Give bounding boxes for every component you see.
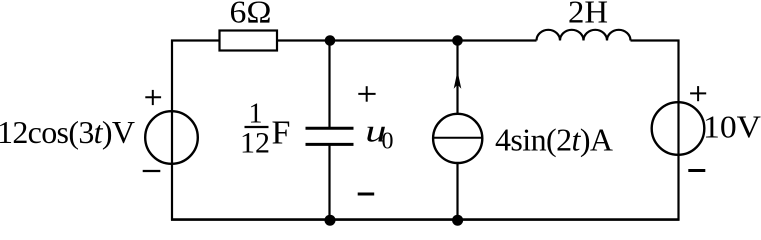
capacitor C1 bottom plate: [306, 143, 354, 146]
capacitor C1 top plate: [306, 127, 354, 130]
wire bottom horizontal: [171, 218, 680, 221]
wire node A to node B: [330, 39, 458, 41]
wire node B to inductor: [458, 39, 537, 41]
voltage source V1 circle (12cos(3t)V): [145, 111, 198, 164]
wire current source branch upper: [456, 41, 458, 115]
node u0 plus sign (capacitor voltage polarity): [358, 93, 375, 95]
voltage source V2 minus sign: [688, 169, 705, 172]
svg-text:12cos(3t)V: 12cos(3t)V: [0, 114, 135, 150]
wire right vertical (through 10V source): [677, 40, 679, 221]
node C junction dot (bottom of capacitor branch): [325, 215, 336, 226]
voltage source V1 minus sign: [143, 170, 161, 172]
svg-text:0: 0: [382, 128, 394, 154]
svg-text:1: 1: [249, 99, 263, 130]
current source I1 horizontal bar: [433, 137, 482, 139]
svg-text:F: F: [272, 115, 291, 152]
node D junction dot (bottom of current source branch): [452, 215, 463, 226]
resistor R1 6 ohm body: [220, 31, 278, 51]
svg-text:12: 12: [240, 126, 270, 159]
node B junction dot (top of current source branch): [452, 35, 463, 46]
wire top-left horizontal: [171, 39, 221, 41]
wire inductor to top-right corner: [631, 39, 680, 41]
current source I1 arrow head: [454, 71, 462, 89]
node A junction dot (top of capacitor branch): [325, 35, 336, 46]
svg-text:4sin(2t)A: 4sin(2t)A: [495, 122, 613, 158]
wire current source branch lower: [456, 163, 458, 220]
wire capacitor branch upper: [328, 41, 330, 129]
svg-text:10V: 10V: [703, 109, 761, 145]
wire left vertical (through 12cos source): [171, 40, 173, 221]
wire resistor to node A: [277, 39, 330, 41]
node u0 minus sign: [358, 193, 375, 196]
wire capacitor branch lower: [328, 145, 330, 221]
current source I1 circle: [433, 114, 482, 163]
voltage source V2 plus sign: [690, 92, 706, 94]
voltage source V2 circle (10V): [652, 102, 705, 155]
svg-text:2H: 2H: [568, 0, 608, 30]
svg-text:6Ω: 6Ω: [230, 0, 272, 30]
inductor L1 coil: [537, 30, 631, 41]
voltage source V1 plus sign: [145, 96, 161, 98]
